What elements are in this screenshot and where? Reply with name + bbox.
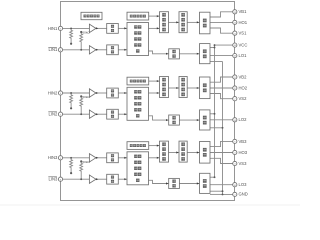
block low-side driver 3: [200, 173, 211, 193]
pin HO1: [233, 20, 237, 24]
pin LO2: [233, 118, 237, 122]
wire low driver 3 to LO3 pin: [210, 184, 233, 186]
wire driver2 to VS2 pin: [210, 94, 233, 99]
block delay 1: [169, 49, 180, 59]
block high-side driver 3: [200, 142, 211, 164]
wire driver2 to VB2 pin: [210, 77, 233, 82]
pin LIN3: [58, 177, 62, 181]
label: 脉冲发生器 (pulse generator): [130, 15, 146, 18]
wire LIN1 input line: [61, 49, 90, 51]
node HIN2/R2a junction: [70, 92, 72, 94]
svg-text:HO2: HO2: [239, 85, 248, 90]
pin HO3: [233, 150, 237, 154]
block input filter 3b: [107, 174, 119, 184]
svg-text:HIN1: HIN1: [48, 26, 58, 31]
label: 死区控制和闭锁控制 row: [134, 37, 141, 40]
svg-text:LIN1: LIN1: [49, 47, 59, 52]
label: 滤波 (filter): [111, 46, 114, 53]
wire pulse generator 3 to level shifter: [149, 145, 160, 147]
wire pulse filter 3 to high-side driver: [187, 152, 199, 154]
arrow into delay block 1: [166, 53, 168, 55]
node LIN1/R1b junction: [80, 49, 82, 51]
pin VB2: [233, 75, 237, 79]
block delay 2: [169, 115, 180, 125]
pin VS1: [233, 31, 237, 35]
wire VCC internal bus: [214, 45, 216, 177]
wire delay 1 to low-side driver: [179, 53, 199, 55]
arrow into level shifter 1 (lower): [157, 27, 159, 29]
label: 驱动 (driver): [203, 116, 207, 125]
pin HO2: [233, 86, 237, 90]
wire low driver 2 COM stub: [210, 127, 223, 129]
wire A3b output: [96, 178, 107, 180]
arrow into level shifter 1 (upper): [157, 15, 159, 17]
wire pulse generator 2 to level shifter: [149, 80, 160, 82]
label: 死区控制和闭锁控制 row: [134, 161, 141, 164]
label: 脉冲发生器 (pulse generator): [130, 80, 146, 83]
arrow into high-side driver 1: [197, 21, 199, 23]
node COM bus / GND wire junction: [222, 193, 224, 195]
resistor R2a (pull-down on HIN2): [70, 93, 73, 108]
pin LO3: [233, 183, 237, 187]
svg-text:VCC: VCC: [239, 42, 248, 47]
wire A1a output: [96, 27, 107, 29]
op-amp buffer A3b: [89, 175, 98, 183]
block level shifter 3: [160, 141, 169, 162]
wire driver3 to VB3 pin: [210, 141, 233, 146]
node HIN3/R3a junction: [70, 157, 72, 159]
wire filter1a to deadtime block: [118, 27, 127, 29]
node VCC bus / driver 3 stub: [214, 176, 216, 178]
pin VB3: [233, 139, 237, 143]
label: 死区控制和闭锁控制 row: [136, 114, 139, 117]
node LIN3/R3b junction: [80, 178, 82, 180]
arrow into level shifter 3 (upper): [157, 145, 159, 147]
wire low driver 1 COM stub: [210, 61, 223, 63]
svg-text:VB1: VB1: [239, 9, 248, 14]
arrow into level shifter 2 (lower): [157, 92, 159, 94]
wire GND pickup from driver 3: [210, 193, 223, 195]
pin HIN3: [58, 156, 62, 160]
wire driver3 to HO3 pin: [210, 152, 233, 154]
IC outline: [61, 2, 235, 201]
block pulse filter 1: [179, 12, 187, 33]
svg-text:GND: GND: [239, 192, 248, 197]
pin VS3: [233, 161, 237, 165]
block high-side driver 1: [200, 12, 211, 34]
label: 死区控制和闭锁控制 row: [134, 173, 141, 176]
wire pulse generator 1 to level shifter: [149, 15, 160, 17]
block input filter 3a: [107, 153, 119, 163]
wire deadtime block 3 to level shifter: [149, 157, 160, 159]
label: 死区控制和闭锁控制 row: [134, 167, 141, 170]
wire delay 2 to low-side driver: [179, 119, 199, 121]
block pulse filter 2: [179, 77, 187, 98]
wire driver2 to HO2 pin: [210, 87, 233, 89]
label: 死区控制和闭锁控制 row: [134, 155, 141, 158]
wire low driver 3 COM stub: [210, 190, 223, 192]
wire low driver 2 to LO2 pin: [210, 119, 233, 121]
wire VCC pin feed: [215, 44, 233, 46]
pin GND: [233, 192, 237, 196]
overbar on LIN1: [48, 46, 57, 49]
wire A3a output: [96, 157, 107, 159]
node R2a stub end: [70, 107, 72, 109]
pin HIN2: [58, 91, 62, 95]
block pulse generator 2 (box B): [127, 77, 149, 85]
block low-side driver 1: [200, 44, 211, 64]
node COM bus / driver 2 stub: [222, 127, 224, 129]
svg-text:VB2: VB2: [239, 74, 248, 79]
node VCC bus / driver 1 stub: [214, 47, 216, 49]
arrow into deadtime block U2 (lower): [124, 113, 126, 115]
node R1a stub end: [70, 43, 72, 45]
wire filter1b to deadtime block: [118, 49, 127, 51]
label: 驱动 (driver): [203, 49, 207, 58]
arrow into deadtime block U3 (lower): [124, 178, 126, 180]
block high-side driver 2: [200, 77, 211, 99]
op-amp buffer A1a: [89, 24, 98, 32]
node R2b stub end: [80, 95, 82, 97]
label: 滤波 (filter): [111, 89, 114, 96]
wire driver1 to HO1 pin: [210, 21, 233, 23]
arrow into deadtime block U3 (upper): [124, 157, 126, 159]
resistor R1a (pull-down on HIN1): [70, 28, 73, 43]
svg-text:LO2: LO2: [239, 117, 248, 122]
label: 死区控制和闭锁控制 row: [134, 31, 141, 34]
wire deadtime block 3 to delay block: [149, 180, 169, 183]
wire pulse filter 2 to high-side driver: [187, 87, 199, 89]
arrow into pulse filter 1: [176, 21, 178, 23]
label: 死区控制和闭锁控制 row: [134, 43, 141, 46]
pin VS2: [233, 97, 237, 101]
wire delay 3 to low-side driver: [179, 183, 199, 185]
block input filter 1a: [107, 24, 119, 34]
resistor R3a (pull-down on HIN3): [70, 158, 73, 173]
wire low driver 1 to LO1 pin: [210, 55, 233, 57]
overbar on LIN3: [48, 176, 57, 179]
arrow into deadtime block U2 (upper): [124, 92, 126, 94]
svg-text:HIN3: HIN3: [48, 155, 58, 160]
label: 脉冲滤波 (pulse filter): [181, 13, 185, 31]
wire driver1 to VB1 pin: [210, 12, 233, 17]
wire driver1 to VS1 pin: [210, 28, 233, 33]
label: 电平位移 (level shift): [162, 142, 166, 160]
wire level shifter 1 to pulse filter: [169, 21, 180, 23]
svg-text:HO3: HO3: [239, 150, 248, 155]
label: 死区控制和闭锁控制 row: [134, 25, 141, 28]
label: 驱动 (driver): [203, 179, 207, 188]
label: 死区控制和闭锁控制 row: [136, 179, 139, 182]
svg-text:VB3: VB3: [239, 139, 248, 144]
block pulse filter 3: [179, 141, 187, 162]
arrow into low-side driver 3: [197, 182, 199, 184]
wire HIN1 input line: [61, 27, 90, 29]
pin HIN1: [58, 26, 62, 30]
wire deadtime block 2 to level shifter: [149, 92, 160, 94]
wire A2b output: [96, 113, 107, 115]
label: 死区控制和闭锁控制 row: [134, 108, 141, 111]
svg-text:LO1: LO1: [239, 53, 248, 58]
label: 延时 (delay): [172, 116, 175, 124]
svg-text:LIN3: LIN3: [49, 177, 59, 182]
node LIN2/R2b junction: [80, 113, 82, 115]
node COM bus / driver 3 stub: [222, 190, 224, 192]
wire low driver 3 VCC stub: [210, 176, 215, 178]
wire filter2a to deadtime block: [118, 92, 127, 94]
block input filter 1b: [107, 45, 119, 55]
arrow into low-side driver 1: [197, 53, 199, 55]
pin LO1: [233, 54, 237, 58]
svg-text:HIN2: HIN2: [48, 90, 58, 95]
label: 电平位移 (level shift): [162, 13, 166, 31]
block low-side driver 2: [200, 110, 211, 130]
op-amp buffer A3a: [89, 154, 98, 162]
label: 死区控制和闭锁控制 row: [134, 96, 141, 99]
resistor R2b 60k (pull-up on LIN2): [80, 96, 83, 114]
block pulse generator 1 (box B): [127, 12, 149, 20]
wire level shifter 3 to pulse filter: [169, 152, 180, 154]
label: 滤波 (filter): [111, 111, 114, 118]
wire A1b output: [96, 49, 107, 51]
arrow into delay block 3: [166, 182, 168, 184]
wire deadtime block 2 to delay block: [149, 116, 169, 120]
arrow into delay block 2: [166, 119, 168, 121]
arrow into deadtime block U1 (upper): [124, 27, 126, 29]
svg-text:VS3: VS3: [239, 161, 248, 166]
pin VCC: [233, 43, 237, 47]
label: 电平位移 (level shift): [162, 78, 166, 96]
label: 死区控制和闭锁控制 row: [134, 102, 141, 105]
page rule (faint): [0, 204, 300, 207]
wire deadtime block 1 to delay block: [149, 51, 169, 54]
wire LIN2 input line: [61, 113, 90, 115]
block level shifter 1: [160, 12, 169, 33]
op-amp buffer A1b: [89, 46, 98, 54]
block dead-time & interlock control U1: [127, 23, 149, 56]
wire A2a output: [96, 92, 107, 94]
pin LIN1: [58, 48, 62, 52]
wire filter3b to deadtime block: [118, 178, 127, 180]
label: 驱动 (driver): [203, 19, 207, 28]
label: 延时 (delay): [172, 50, 175, 58]
wire driver3 to VS3 pin: [210, 158, 233, 163]
block delay 3: [169, 178, 180, 188]
arrow into level shifter 3 (lower): [157, 157, 159, 159]
op-amp buffer A2a: [89, 89, 98, 97]
arrow into high-side driver 3: [197, 151, 199, 153]
arrow into pulse filter 3: [176, 151, 178, 153]
wire COM bus to GND pin: [223, 62, 233, 195]
block input filter 2b: [107, 109, 119, 119]
label: 滤波 (filter): [111, 25, 114, 32]
op-amp buffer A2b: [89, 110, 98, 118]
label: 脉冲滤波 (pulse filter): [181, 142, 185, 160]
node R1b stub end: [80, 31, 82, 33]
wire HIN3 input line: [61, 157, 90, 159]
label: 滤波 (filter): [111, 176, 114, 183]
overbar on LIN2: [48, 111, 57, 114]
wire filter2b to deadtime block: [118, 113, 127, 115]
resistor R1b 60k (pull-up on LIN1): [80, 32, 83, 50]
label: 死区控制和闭锁控制 row: [134, 90, 141, 93]
arrow into low-side driver 2: [197, 119, 199, 121]
svg-text:LIN2: LIN2: [49, 112, 59, 117]
arrow into deadtime block U1 (lower): [124, 49, 126, 51]
pin LIN2: [58, 112, 62, 116]
node R3b stub end: [80, 160, 82, 162]
pin VB1: [233, 10, 237, 14]
arrow into high-side driver 2: [197, 87, 199, 89]
node HIN1/R1a junction: [70, 27, 72, 29]
label: 延时 (delay): [172, 180, 175, 188]
wire filter3a to deadtime block: [118, 157, 127, 159]
label: 死区控制和闭锁控制 row: [136, 49, 139, 52]
block level shifter 2: [160, 77, 169, 98]
node R3a stub end: [70, 172, 72, 174]
wire pulse filter 1 to high-side driver: [187, 21, 199, 23]
wire low driver 1 VCC stub: [210, 47, 215, 49]
wire deadtime block 1 to level shifter: [149, 27, 160, 29]
node VCC bus top: [214, 44, 216, 46]
block dead-time & interlock control U2: [127, 87, 149, 120]
arrow into level shifter 2 (upper): [157, 80, 159, 82]
label: 脉冲滤波 (pulse filter): [181, 78, 185, 96]
svg-text:LO3: LO3: [239, 182, 248, 187]
block pulse generator 3 (box B): [127, 142, 149, 150]
block undervoltage-protect (box A): [81, 12, 102, 19]
wire HIN2 input line: [61, 92, 90, 94]
svg-text:HO1: HO1: [239, 20, 248, 25]
label: 脉冲发生器 (pulse generator): [130, 144, 146, 147]
label: 欠电压保护 (undervoltage protection): [83, 15, 99, 18]
svg-text:VS1: VS1: [239, 31, 248, 36]
arrow into pulse filter 2: [176, 87, 178, 89]
node VCC bus / driver 2 stub: [214, 113, 216, 115]
label: 驱动 (driver): [203, 148, 207, 157]
block dead-time & interlock control U3: [127, 152, 149, 185]
label: 滤波 (filter): [111, 154, 114, 161]
resistor R3b 60k (pull-up on LIN3): [80, 161, 83, 179]
svg-text:VS2: VS2: [239, 96, 248, 101]
label: 驱动 (driver): [203, 83, 207, 92]
block input filter 2a: [107, 88, 119, 98]
wire LIN3 input line: [61, 178, 90, 180]
wire level shifter 2 to pulse filter: [169, 87, 180, 89]
wire low driver 2 VCC stub: [210, 113, 215, 115]
